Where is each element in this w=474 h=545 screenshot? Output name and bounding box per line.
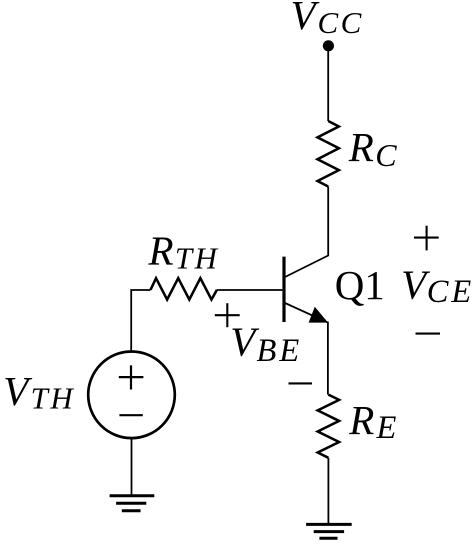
svg-text:Q1: Q1 <box>335 262 385 308</box>
svg-text:VCC: VCC <box>291 0 364 40</box>
